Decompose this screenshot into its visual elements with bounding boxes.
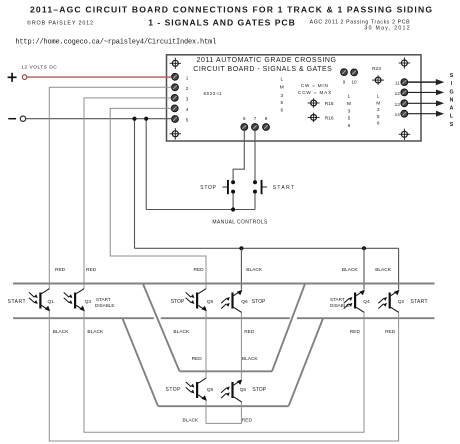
signal output arrow 12 [408, 90, 443, 94]
start switch tick [263, 186, 268, 188]
wire bus to Q2 emitter [398, 248, 400, 289]
wire bus to Q4 emitter [363, 248, 365, 289]
svg-text:STOP: STOP [252, 299, 266, 305]
svg-text:R18: R18 [325, 101, 334, 107]
terminal 7 [252, 124, 259, 131]
terminal 5 [172, 116, 179, 123]
mounting hole bottom-right [399, 129, 410, 140]
junction minus/emitter bus [132, 117, 136, 121]
red wire + to terminal 1 [27, 76, 171, 78]
stop switch tick [223, 186, 228, 188]
wire terminal 7 to START switch [254, 130, 256, 180]
junction bus Q4 [362, 246, 366, 250]
svg-text:SIGNALS: SIGNALS [449, 73, 453, 128]
wire Q6 main collector to Q6 siding emitter [240, 312, 242, 379]
svg-text:2011–AGC CIRCUIT BOARD CONNECT: 2011–AGC CIRCUIT BOARD CONNECTIONS FOR 1… [30, 5, 432, 15]
svg-text:http://home.cogeco.ca/~rpaisle: http://home.cogeco.ca/~rpaisley4/Circuit… [15, 38, 216, 46]
svg-text:Q5: Q5 [207, 299, 214, 305]
phototransistor Q6 main [221, 290, 242, 313]
wire terminal 3 to Q3 collector [84, 98, 171, 289]
terminal 9 [341, 69, 348, 76]
svg-text:BLACK: BLACK [87, 329, 104, 335]
svg-text:BLACK: BLACK [246, 267, 263, 273]
phototransistor Q6 siding [221, 379, 242, 402]
rail main bottom [13, 317, 435, 319]
wire terminal 6 to STOP switch [233, 130, 244, 180]
turnout diagonal left outer [123, 318, 159, 406]
svg-text:Q5: Q5 [207, 387, 214, 393]
svg-text:START: START [273, 185, 294, 191]
junction manual common [231, 207, 235, 211]
junction minus/manual [144, 117, 148, 121]
terminal 12 [401, 89, 408, 96]
wire Q5 main emitter to Q5 siding collector [205, 311, 207, 379]
svg-text:START: START [8, 299, 26, 305]
terminal 3 [171, 95, 178, 102]
rail siding bottom [158, 405, 289, 407]
wire start bottom [254, 193, 256, 209]
svg-text:BLACK: BLACK [53, 329, 70, 335]
svg-text:Q6: Q6 [241, 299, 248, 305]
wire stop bottom [232, 193, 234, 209]
mounting hole top-left [170, 58, 181, 69]
svg-text:30 May, 2012: 30 May, 2012 [364, 25, 409, 31]
terminal 8 [263, 124, 270, 131]
terminal 11 [401, 79, 408, 86]
start switch contacts [253, 180, 257, 193]
svg-text:RED: RED [194, 267, 205, 273]
signal output arrow 11 [408, 80, 443, 85]
stop switch plunger [227, 180, 229, 194]
svg-text:Q1: Q1 [48, 299, 55, 305]
wire minus to terminal 5 [26, 118, 172, 120]
signal output arrow 13 [408, 101, 443, 105]
turnout diagonal left inner [143, 283, 180, 372]
svg-text:RED: RED [55, 267, 66, 273]
svg-text:BLACK: BLACK [375, 267, 392, 273]
svg-text:1 - SIGNALS AND GATES PCB: 1 - SIGNALS AND GATES PCB [148, 18, 294, 28]
svg-text:STOP: STOP [252, 387, 266, 393]
phototransistor Q5 siding [186, 378, 207, 401]
junction bus Q6 [239, 246, 243, 250]
svg-text:R16: R16 [325, 116, 334, 122]
minus input circle [20, 116, 25, 121]
phototransistor Q4 [344, 290, 365, 313]
terminal 4 [171, 105, 178, 112]
wire terminal 4 to Q5 collector [110, 108, 206, 289]
terminal 6 [241, 124, 248, 131]
wire minus drop to emitter bus [134, 119, 136, 249]
svg-text:START: START [411, 299, 428, 305]
svg-text:Q4: Q4 [363, 299, 370, 305]
svg-text:Q3: Q3 [85, 299, 92, 305]
svg-text:RED: RED [385, 329, 396, 335]
svg-text:2011 AUTOMATIC GRADE CROSSING: 2011 AUTOMATIC GRADE CROSSING [197, 57, 337, 64]
svg-text:RED: RED [192, 356, 203, 362]
wire Q1 emitter to Q2 collector loop [49, 311, 398, 442]
turnout diagonal right inner [272, 283, 305, 372]
wire terminal 2 to Q1 collector [49, 87, 171, 289]
svg-text:MANUAL CONTROLS: MANUAL CONTROLS [212, 219, 268, 225]
start switch plunger [261, 180, 263, 194]
wire manual common [146, 209, 255, 211]
svg-text:Q2: Q2 [398, 299, 405, 305]
terminal 1 [172, 73, 179, 80]
rail main top [13, 283, 435, 285]
svg-text:6S23-I1: 6S23-I1 [204, 91, 222, 96]
turnout diagonal right outer [289, 318, 323, 405]
svg-text:©ROB PAISLEY 2012: ©ROB PAISLEY 2012 [27, 19, 93, 26]
svg-text:R23: R23 [372, 66, 381, 72]
terminal 2 [172, 84, 179, 91]
svg-text:RED: RED [350, 329, 361, 335]
plus sign [8, 73, 17, 82]
svg-text:CW = MIN: CW = MIN [301, 83, 328, 88]
svg-text:STOP: STOP [171, 299, 185, 305]
terminal 14 [401, 110, 408, 117]
stop switch contacts [231, 180, 235, 193]
svg-text:BLACK: BLACK [342, 267, 359, 273]
svg-text:STOP: STOP [200, 185, 216, 191]
rail siding top [180, 370, 273, 372]
svg-text:RED: RED [244, 329, 255, 335]
svg-text:RED: RED [86, 267, 97, 273]
phototransistor Q5 main [186, 289, 207, 312]
mounting hole bottom-left [170, 128, 181, 139]
svg-text:BLACK: BLACK [183, 418, 200, 424]
wire emitter bus horizontal [135, 247, 399, 249]
wire Q3 emitter to Q4 collector loop [84, 311, 364, 433]
trimmer R23 [372, 75, 384, 85]
svg-text:12 VOLTS DC: 12 VOLTS DC [21, 65, 57, 71]
svg-text:CCW = MAX: CCW = MAX [298, 90, 331, 95]
trimmer R18 [308, 98, 320, 108]
wire minus drop to manual controls [145, 119, 147, 210]
svg-text:RED: RED [242, 418, 253, 424]
svg-text:BLACK: BLACK [173, 329, 190, 335]
mounting hole top-right [399, 57, 410, 68]
terminal 10 [351, 69, 358, 76]
svg-text:BLACK: BLACK [242, 356, 259, 362]
svg-text:STARTDISABLE: STARTDISABLE [95, 297, 114, 308]
plus input circle [22, 75, 27, 80]
svg-text:Q6: Q6 [240, 387, 247, 393]
signal output arrow 14 [408, 112, 443, 116]
wire Q5 siding emitter to Q6 siding collector loop [206, 400, 241, 423]
PCB board outline [167, 55, 422, 141]
phototransistor Q3 [64, 289, 85, 312]
svg-text:STOP: STOP [166, 387, 182, 393]
trimmer R16 [308, 113, 320, 123]
terminal 13 [401, 100, 408, 107]
svg-text:STARTDISABLE: STARTDISABLE [330, 297, 349, 308]
minus sign [8, 118, 16, 120]
svg-text:CIRCUIT BOARD - SIGNALS & GATE: CIRCUIT BOARD - SIGNALS & GATES [193, 66, 332, 73]
phototransistor Q1 [29, 289, 50, 312]
phototransistor Q2 [378, 290, 399, 313]
wire bus to Q6 emitter [240, 248, 242, 289]
